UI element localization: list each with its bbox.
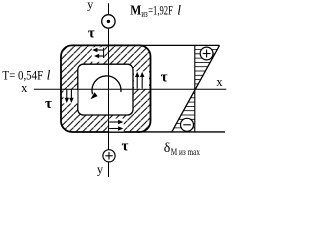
tau label top bbox=[88, 26, 95, 42]
bottom edge extension line bbox=[138, 131, 225, 133]
svg-text:l: l bbox=[47, 68, 51, 83]
label x left bbox=[21, 81, 28, 95]
svg-text:τ: τ bbox=[121, 139, 128, 155]
tau label left bbox=[45, 96, 52, 112]
top edge extension line bbox=[138, 44, 220, 46]
x axis bbox=[34, 88, 227, 90]
svg-text:x: x bbox=[216, 75, 223, 89]
vector-in symbol on y axis (circle with plus) bbox=[103, 150, 115, 162]
svg-text:δ: δ bbox=[164, 141, 171, 156]
section outer boundary with hatching bbox=[61, 45, 151, 132]
svg-text:T= 0,54F: T= 0,54F bbox=[2, 69, 43, 83]
svg-text:М из max: М из max bbox=[171, 148, 200, 158]
svg-text:x: x bbox=[21, 81, 28, 95]
svg-text:τ: τ bbox=[88, 26, 95, 42]
svg-text:M: M bbox=[130, 4, 141, 19]
shear arrows bottom wall (pointing right) bbox=[109, 119, 124, 132]
minus sign circle on stress diagram bbox=[181, 118, 194, 131]
sigma max label bbox=[164, 141, 200, 158]
torque arc bbox=[90, 76, 121, 99]
svg-text:из: из bbox=[141, 9, 147, 20]
shear arrows top wall (pointing left) bbox=[92, 47, 105, 62]
stress diagram hatching bbox=[174, 50, 218, 128]
tau label right bbox=[161, 70, 168, 86]
stress diagram sloped line bbox=[172, 45, 220, 132]
tau label bottom bbox=[121, 139, 128, 155]
svg-text:y: y bbox=[97, 163, 104, 177]
label y bottom bbox=[97, 163, 104, 177]
y axis bbox=[108, 3, 110, 177]
svg-text:τ: τ bbox=[45, 96, 52, 112]
plus sign circle on stress diagram bbox=[200, 47, 213, 60]
svg-text:y: y bbox=[87, 0, 94, 12]
bending moment label bbox=[130, 3, 181, 21]
label y top bbox=[87, 0, 94, 12]
vector-out symbol on y axis (circle with dot) bbox=[102, 15, 115, 28]
shear arrows left wall (pointing down) bbox=[64, 90, 78, 104]
shear arrows right wall (pointing up) bbox=[134, 71, 149, 88]
section inner hole bbox=[78, 64, 133, 115]
svg-text:τ: τ bbox=[161, 70, 168, 86]
label x right bbox=[216, 75, 223, 89]
svg-text:l: l bbox=[177, 3, 181, 18]
torque value label bbox=[2, 68, 50, 83]
stress diagram zero line bbox=[194, 45, 196, 131]
svg-text:=1,92F: =1,92F bbox=[148, 4, 173, 18]
